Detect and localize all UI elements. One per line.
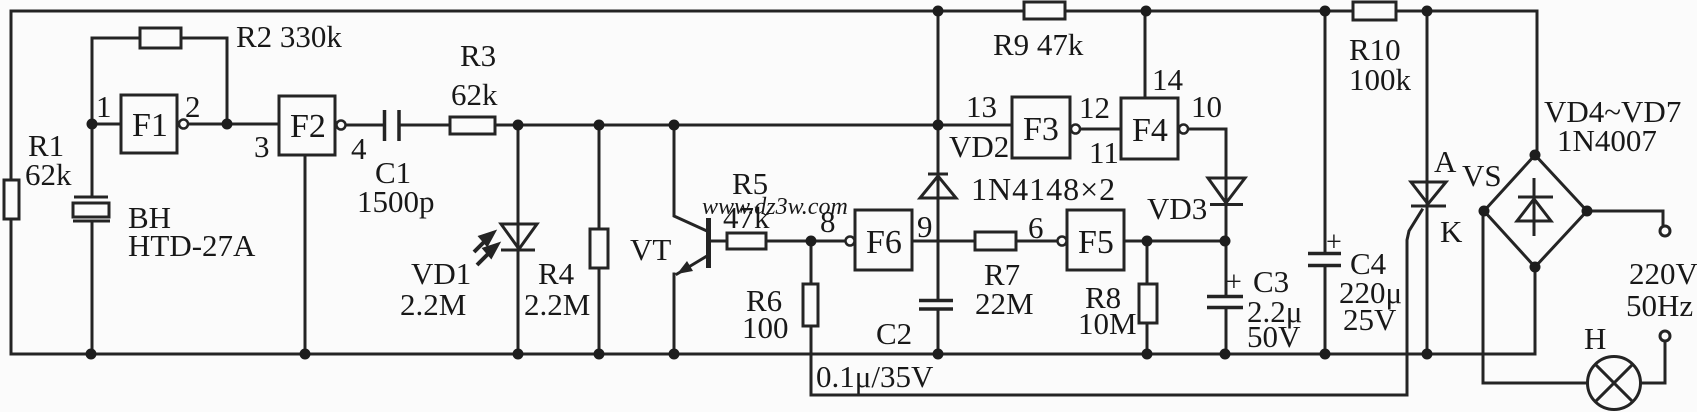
- svg-text:13: 13: [966, 89, 997, 124]
- mains terminal upper: [1660, 226, 1670, 236]
- wire VT collector: [674, 125, 707, 231]
- wire VT base to R5: [711, 240, 727, 243]
- svg-text:HTD-27A: HTD-27A: [128, 228, 256, 263]
- svg-text:100k: 100k: [1349, 62, 1412, 97]
- gate F4: [1121, 98, 1188, 159]
- wire node8 down through R6: [810, 241, 813, 395]
- svg-text:10: 10: [1191, 89, 1222, 124]
- resistor R2 330k: [140, 28, 181, 48]
- wire C1 to R3 to F3 (signal rail): [400, 124, 1012, 127]
- wire VD2-C2 column: [937, 11, 940, 354]
- gate F5: [1058, 210, 1125, 270]
- wire mains terminal2 to lamp: [1641, 342, 1665, 383]
- svg-text:14: 14: [1152, 62, 1184, 97]
- svg-text:9: 9: [917, 209, 933, 244]
- wire left vertical R1 net: [10, 11, 13, 354]
- thyristor VS: [1411, 182, 1446, 206]
- piezo BH HTD-27A: [73, 197, 110, 221]
- resistor R9 47k: [1024, 2, 1065, 19]
- capacitor C3 2.2u 50V: [1207, 267, 1243, 308]
- svg-text:+: +: [1226, 267, 1242, 298]
- svg-text:1N4007: 1N4007: [1557, 123, 1657, 158]
- wire F2 output to C1: [346, 124, 383, 127]
- diode VD3 1N4148: [1208, 178, 1245, 205]
- transistor VT base bar: [706, 218, 711, 268]
- svg-text:VT: VT: [630, 232, 671, 267]
- resistor R4 2.2M: [590, 229, 608, 268]
- VD1 light arrows: [474, 233, 497, 265]
- svg-text:3: 3: [254, 129, 270, 164]
- diode VD2 1N4148: [920, 174, 956, 198]
- wire R6 bottom to VS gate (bottom run): [811, 394, 1406, 397]
- svg-text:11: 11: [1089, 135, 1119, 170]
- svg-text:K: K: [1440, 214, 1463, 249]
- svg-text:H: H: [1584, 321, 1606, 356]
- wire VT emitter to rail: [674, 256, 707, 354]
- wire VD1 branch: [517, 125, 520, 354]
- svg-text:10M: 10M: [1078, 306, 1137, 341]
- svg-text:1: 1: [96, 89, 112, 124]
- wire R5 to F6 input node 8: [766, 240, 845, 243]
- wire F1 output to F2 input: [188, 123, 279, 126]
- wire node1 vertical (F1 pin1 to BH): [92, 38, 121, 196]
- wire F2 bottom to rail: [304, 155, 307, 354]
- wire F4 output via VD3 and C3 to rail: [1188, 129, 1226, 354]
- mains terminal lower: [1660, 331, 1670, 341]
- resistor R3 62k: [450, 117, 495, 134]
- svg-text:F5: F5: [1078, 224, 1114, 261]
- wire R4 branch: [598, 125, 601, 354]
- gate F6: [846, 210, 913, 270]
- svg-text:4: 4: [351, 131, 367, 166]
- svg-text:1500p: 1500p: [357, 184, 435, 219]
- resistor R7 22M: [975, 232, 1016, 250]
- svg-text:1N4148×2: 1N4148×2: [971, 171, 1116, 207]
- svg-text:2.2M: 2.2M: [524, 287, 590, 322]
- svg-text:VD3: VD3: [1147, 191, 1207, 226]
- svg-text:2: 2: [185, 89, 201, 124]
- svg-text:R4: R4: [538, 256, 575, 291]
- transistor VT emitter arrowhead: [677, 261, 693, 274]
- wire F3 output to F4 input: [1081, 128, 1121, 131]
- svg-text:62k: 62k: [25, 157, 72, 192]
- svg-text:22M: 22M: [975, 286, 1034, 321]
- wire BH bottom to rail: [91, 222, 94, 354]
- bridge rectifier VD4~VD7: [1484, 155, 1587, 267]
- svg-text:A: A: [1434, 144, 1457, 179]
- svg-text:R2 330k: R2 330k: [236, 19, 342, 54]
- wire F4 pin14 to top rail: [1144, 11, 1147, 98]
- gate F2: [279, 96, 346, 155]
- svg-text:25V: 25V: [1343, 302, 1397, 337]
- resistor R6 100: [803, 284, 818, 326]
- wire R8 branch: [1146, 241, 1149, 354]
- svg-text:50V: 50V: [1247, 319, 1301, 354]
- svg-text:100: 100: [742, 310, 789, 345]
- wire F6 output to R7 to F5 input: [912, 240, 1057, 243]
- wire bridge bottom to rail: [1534, 267, 1537, 354]
- svg-text:R3: R3: [460, 38, 496, 73]
- wire C4 column: [1324, 11, 1327, 354]
- wire VS anode-cathode column: [1426, 11, 1429, 354]
- svg-text:VD1: VD1: [411, 256, 471, 291]
- wire R2 feedback loop: [92, 38, 227, 124]
- gate F3: [1012, 97, 1080, 158]
- svg-text:50Hz: 50Hz: [1626, 288, 1693, 323]
- wire F5 output to node (R8, VD3, C3): [1124, 240, 1226, 243]
- svg-text:VS: VS: [1462, 158, 1502, 193]
- wire top-right drop to bridge: [1536, 11, 1539, 155]
- wire lamp left to bridge left vertex: [1483, 211, 1587, 383]
- svg-text:F1: F1: [132, 107, 168, 144]
- wire bridge right to mains terminal: [1587, 211, 1663, 225]
- photodiode VD1: [501, 224, 537, 250]
- svg-text:F3: F3: [1023, 111, 1059, 148]
- lamp H: [1588, 357, 1641, 410]
- svg-text:R9 47k: R9 47k: [993, 27, 1084, 62]
- svg-text:VD2: VD2: [949, 129, 1009, 164]
- svg-text:0.1μ/35V: 0.1μ/35V: [816, 359, 934, 394]
- svg-text:12: 12: [1079, 90, 1110, 125]
- svg-text:C2: C2: [876, 316, 912, 351]
- svg-text:www.dz3w.com: www.dz3w.com: [702, 194, 848, 220]
- capacitor C2 0.1u/35V: [919, 301, 953, 310]
- resistor R5 47k: [727, 233, 766, 249]
- svg-text:6: 6: [1028, 210, 1044, 245]
- capacitor C1 1500p: [385, 110, 400, 141]
- capacitor C4 220u 25V: [1308, 227, 1342, 266]
- wire top rail: [11, 10, 1537, 13]
- svg-text:F2: F2: [290, 108, 326, 145]
- resistor R10 100k: [1353, 2, 1396, 20]
- resistor R1 62k: [4, 180, 19, 219]
- svg-text:F6: F6: [866, 224, 902, 261]
- wire bottom rail: [11, 353, 1535, 356]
- wire VS gate rise: [1407, 210, 1422, 395]
- svg-text:220V: 220V: [1629, 256, 1697, 291]
- gate F1: [121, 95, 188, 153]
- svg-text:2.2M: 2.2M: [400, 287, 466, 322]
- svg-text:F4: F4: [1132, 112, 1168, 149]
- svg-text:62k: 62k: [451, 77, 498, 112]
- svg-text:+: +: [1326, 227, 1342, 258]
- resistor R8 10M: [1139, 284, 1157, 323]
